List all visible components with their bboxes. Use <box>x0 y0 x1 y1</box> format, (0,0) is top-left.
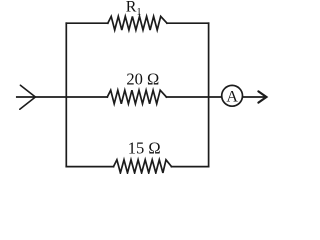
wire top branch right segment <box>167 22 209 24</box>
wire top branch left segment <box>66 22 108 24</box>
svg-text:15 Ω: 15 Ω <box>128 139 161 158</box>
input arrowhead <box>20 85 36 109</box>
wire bottom branch left segment <box>66 166 113 168</box>
resistor 20 ohm <box>107 90 166 104</box>
wire middle branch input segment <box>17 96 108 98</box>
resistor 15 ohm <box>114 160 172 173</box>
resistor R1 <box>108 16 167 30</box>
wire ammeter to output arrow <box>242 96 263 98</box>
wire left bus vertical <box>65 23 67 166</box>
svg-text:A: A <box>226 89 238 106</box>
svg-text:20 Ω: 20 Ω <box>126 69 159 88</box>
wire bottom branch right segment <box>172 166 209 168</box>
wire right bus vertical <box>208 23 210 166</box>
svg-text:R1: R1 <box>126 0 142 18</box>
ammeter U1 circle <box>222 85 243 106</box>
wire middle branch to ammeter <box>166 96 221 98</box>
output arrowhead <box>258 91 266 102</box>
